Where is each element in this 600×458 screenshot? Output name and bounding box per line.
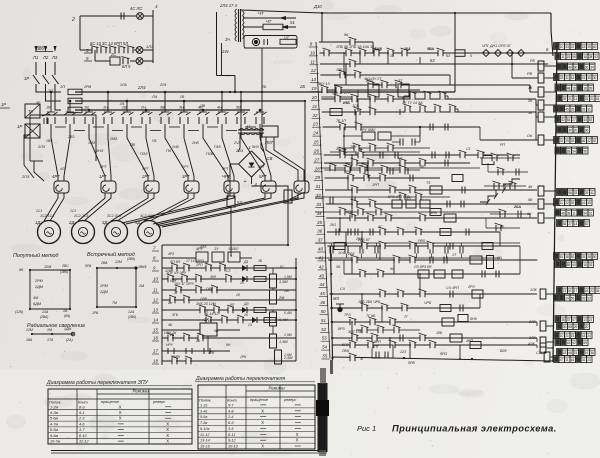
wire box53 down <box>231 207 232 256</box>
grid extra row33 <box>359 166 366 174</box>
svg-text:СВР: СВР <box>200 297 208 301</box>
svg-text:44: 44 <box>583 118 587 122</box>
svg-text:Л2: Л2 <box>42 55 49 60</box>
svg-text:6Л 5: 6Л 5 <box>122 64 131 69</box>
grid row 35 wire <box>325 189 537 191</box>
svg-text:2РТ: 2РТ <box>141 174 150 179</box>
svg-text:1ЛК: 1ЛК <box>530 288 537 292</box>
svg-text:51: 51 <box>321 318 326 323</box>
svg-text:1С1: 1С1 <box>36 209 42 213</box>
svg-text:вращение: вращение <box>101 400 119 404</box>
contact 14 <box>118 47 120 53</box>
subcircuit row 9 <box>162 267 296 269</box>
grid extra row43 <box>481 271 483 278</box>
grid row 33 comp <box>344 166 351 174</box>
svg-text:9К: 9К <box>344 33 349 37</box>
subcircuit row 10 <box>162 278 296 280</box>
contact cross-reference table row y264 <box>555 261 561 268</box>
wire bus A to transformer <box>454 13 456 92</box>
svg-text:41: 41 <box>590 191 594 195</box>
resistor 6С <box>280 39 296 44</box>
svg-text:П6: П6 <box>152 139 157 143</box>
grid row 42 comp <box>351 256 358 264</box>
svg-text:18: 18 <box>582 334 586 338</box>
wire bridge left leg <box>230 164 239 196</box>
node top <box>321 12 323 14</box>
scan noise speckle <box>115 203 132 211</box>
grid row 34 comp <box>347 174 354 182</box>
svg-text:10Б: 10Б <box>436 331 443 335</box>
svg-text:6Н9: 6Н9 <box>470 317 477 321</box>
svg-text:12М: 12М <box>44 265 52 269</box>
svg-text:3В: 3В <box>160 106 165 110</box>
svg-text:2М: 2М <box>283 289 289 293</box>
grid row 55 comp <box>349 354 356 362</box>
tables bottom border <box>51 450 327 452</box>
svg-text:Л4: Л4 <box>151 94 158 99</box>
svg-text:30: 30 <box>563 325 567 329</box>
wire row3 <box>95 60 110 62</box>
svg-text:54: 54 <box>322 345 327 350</box>
svg-text:Зч: Зч <box>225 37 231 42</box>
svg-text:14: 14 <box>153 318 158 323</box>
svg-text:16: 16 <box>571 358 575 362</box>
svg-text:21: 21 <box>590 97 594 101</box>
svg-text:1ЛА: 1ЛА <box>120 83 127 87</box>
svg-text:2Л4: 2Л4 <box>137 85 146 90</box>
svg-text:9-12: 9-12 <box>228 439 237 443</box>
svg-text:1НЗ: 1НЗ <box>96 149 104 153</box>
wire row8 <box>162 257 196 259</box>
svg-text:1П: 1П <box>60 84 65 89</box>
svg-text:30: 30 <box>574 66 578 70</box>
contact 4C <box>120 13 122 20</box>
subcircuit right rail <box>295 258 297 361</box>
svg-text:ЛБК: ЛБК <box>341 349 350 353</box>
svg-text:МЗ: МЗ <box>333 296 339 301</box>
svg-text:51: 51 <box>568 289 572 293</box>
svg-text:23: 23 <box>312 122 318 127</box>
svg-text:10: 10 <box>560 45 564 49</box>
grid row 40 wire <box>327 231 500 233</box>
transformer 3Т primary winding <box>235 9 237 14</box>
wire secondary line1 <box>243 17 296 19</box>
svg-text:59: 59 <box>572 55 576 59</box>
svg-text:36: 36 <box>585 129 589 133</box>
button МЗ <box>336 303 344 305</box>
grid junction dots <box>343 52 345 54</box>
lamp ЛС <box>137 13 144 20</box>
subcircuit row 16 <box>162 337 296 339</box>
grid row 32 comp <box>351 159 358 167</box>
svg-text:ПЗЗ: ПЗЗ <box>140 152 148 156</box>
contact cross-reference table row y56 <box>555 53 561 60</box>
svg-text:39: 39 <box>589 87 593 91</box>
svg-text:31: 31 <box>560 139 564 143</box>
grid row 13 wire <box>335 84 530 86</box>
grid row 41 comp <box>334 243 345 250</box>
wire phase drop C <box>55 90 61 110</box>
svg-text:6РП: 6РП <box>374 340 381 344</box>
svg-text:47: 47 <box>560 358 564 362</box>
svg-text:6ДМ: 6ДМ <box>33 302 42 306</box>
svg-text:33: 33 <box>589 263 593 267</box>
svg-text:5РУ ЧМУ: 5РУ ЧМУ <box>360 128 376 132</box>
scan gutter shadow <box>318 383 328 452</box>
relay coil 4К <box>538 186 544 196</box>
svg-text:4ЭЗ: 4ЭЗ <box>200 245 206 249</box>
grid right-mid contacts 1 <box>491 154 498 162</box>
svg-text:31: 31 <box>565 76 569 80</box>
svg-text:12: 12 <box>153 298 158 303</box>
grid row 42 wire <box>328 259 537 261</box>
radial diagram line <box>32 333 73 335</box>
svg-text:ОК: ОК <box>527 134 533 138</box>
svg-text:В29: В29 <box>500 349 506 353</box>
svg-text:СВ: СВ <box>267 156 273 161</box>
svg-text:1ББ 2БК ЧРБ: 1ББ 2БК ЧРБ <box>358 300 381 304</box>
wire right vertical <box>152 10 154 63</box>
contact cross-reference table row y359 <box>554 356 560 363</box>
rectifier bridge СВ <box>239 151 265 177</box>
svg-text:1НБ: 1НБ <box>172 145 179 149</box>
fuse 1П a <box>68 89 82 95</box>
svg-text:Х: Х <box>261 444 264 449</box>
diagram square 2 <box>97 268 136 307</box>
relay coil 4ЛК <box>540 343 546 353</box>
svg-text:2ДМ: 2ДМ <box>34 285 44 289</box>
svg-text:53: 53 <box>589 118 593 122</box>
svg-text:2К: 2К <box>527 99 533 103</box>
svg-text:43: 43 <box>594 55 598 59</box>
contact cross-reference table row y212.5 <box>555 209 561 216</box>
grid cap extras y232 <box>354 229 356 236</box>
svg-text:40: 40 <box>593 45 597 49</box>
fuse 1П c <box>68 107 82 113</box>
svg-text:Д10: Д10 <box>313 4 322 9</box>
grid extra row36 <box>369 200 376 208</box>
svg-text:1М: 1М <box>47 328 52 332</box>
wire row2 <box>80 49 92 51</box>
svg-text:12М: 12М <box>26 328 33 332</box>
svg-text:49: 49 <box>568 66 572 70</box>
svg-text:26: 26 <box>313 149 319 154</box>
svg-text:10: 10 <box>244 313 248 317</box>
switch 1Р three-phase <box>35 62 37 75</box>
svg-text:ЛЗ 9РЗ ВУ: ЛЗ 9РЗ ВУ <box>413 265 432 269</box>
svg-text:25: 25 <box>582 255 586 259</box>
svg-text:13: 13 <box>574 97 578 101</box>
svg-text:2К1: 2К1 <box>355 237 362 241</box>
contact 6Л <box>122 58 124 64</box>
relay coil 7К <box>487 256 494 269</box>
svg-text:23: 23 <box>587 358 591 362</box>
grid row 47 wire <box>331 321 538 323</box>
wire phase drop B <box>46 90 62 101</box>
svg-text:5Б: 5Б <box>420 165 425 169</box>
grid row 40 comp <box>335 229 337 236</box>
svg-text:57: 57 <box>572 318 576 322</box>
svg-text:2НБ: 2НБ <box>191 141 199 145</box>
svg-text:1: 1 <box>249 145 251 150</box>
wire lamp-circuit left <box>79 16 81 50</box>
svg-text:7Б 1П: 7Б 1П <box>336 119 346 123</box>
relay coil 3К <box>538 112 544 122</box>
svg-text:Принципиальная электросхема.: Принципиальная электросхема. <box>392 424 557 434</box>
svg-text:39: 39 <box>587 76 591 80</box>
svg-text:2РМ: 2РМ <box>99 284 109 288</box>
svg-text:42: 42 <box>587 139 591 143</box>
svg-text:20: 20 <box>585 325 589 329</box>
box 53 <box>227 196 235 207</box>
svg-text:2ЧЗ: 2ЧЗ <box>233 141 241 145</box>
svg-text:2Л4: 2Л4 <box>159 83 166 87</box>
svg-text:53: 53 <box>237 200 242 205</box>
svg-text:31: 31 <box>582 358 586 362</box>
grid row 41 wire <box>327 245 520 247</box>
svg-text:53: 53 <box>587 297 591 301</box>
svg-text:33: 33 <box>316 202 321 207</box>
subcircuit top rail <box>162 244 288 246</box>
svg-text:4К: 4К <box>528 185 533 189</box>
svg-text:9-1: 9-1 <box>79 411 85 415</box>
svg-text:43: 43 <box>319 273 324 278</box>
svg-text:11: 11 <box>561 55 565 59</box>
grid row 34 wire <box>325 177 440 179</box>
svg-text:2БК: 2БК <box>347 252 355 256</box>
grid right-mid contacts 3 <box>493 182 500 190</box>
svg-text:36: 36 <box>561 318 565 322</box>
subcircuit row 13 <box>162 309 296 311</box>
grid row 41b wire <box>315 242 520 244</box>
svg-text:10-7м: 10-7м <box>50 440 61 444</box>
svg-text:22: 22 <box>571 45 575 49</box>
grid row 19 wire <box>321 89 420 91</box>
svg-text:Д3: Д3 <box>243 302 249 306</box>
sq2 dots <box>96 267 98 269</box>
svg-text:НРУ: НРУ <box>166 343 174 347</box>
svg-text:(12К): (12К) <box>15 310 23 314</box>
svg-text:2РЗ: 2РЗ <box>467 285 475 289</box>
svg-text:11-12: 11-12 <box>200 433 210 437</box>
svg-text:ЗУБ 23 12М: ЗУБ 23 12М <box>196 302 216 306</box>
contact cross-reference table row y46 <box>554 43 560 50</box>
svg-text:Конт.: Конт. <box>78 401 89 405</box>
svg-text:29: 29 <box>565 139 569 143</box>
svg-text:24: 24 <box>565 297 569 301</box>
svg-text:22: 22 <box>565 201 569 205</box>
svg-text:28: 28 <box>567 150 571 154</box>
svg-text:19: 19 <box>312 86 317 91</box>
svg-text:28: 28 <box>587 255 591 259</box>
svg-text:4РК: 4РК <box>208 351 215 355</box>
grid row 30 wire <box>320 167 480 169</box>
grid row 19 comp <box>321 86 328 94</box>
svg-text:Х: Х <box>261 408 264 413</box>
wire row42 to rail <box>482 259 537 261</box>
svg-text:1Л: 1Л <box>240 281 245 285</box>
grid row 32 wire <box>324 162 470 164</box>
relay coil 2ЛК <box>540 321 546 331</box>
svg-text:2ПЗ: 2ПЗ <box>21 175 30 179</box>
grid row 37 comp <box>349 214 356 222</box>
svg-text:3ЛК: 3ЛК <box>529 336 536 340</box>
svg-text:И5Б: И5Б <box>343 101 350 105</box>
svg-text:5РО: 5РО <box>440 352 447 356</box>
grid extra row48 <box>419 334 426 342</box>
svg-text:4РЗ: 4РЗ <box>168 252 174 256</box>
wire frame drop <box>34 161 44 181</box>
relay coil 1К <box>538 87 544 97</box>
grid row 26 wire <box>322 111 536 113</box>
contact cross-reference table row y129.5 <box>557 126 563 133</box>
svg-text:23: 23 <box>567 55 571 59</box>
svg-text:29: 29 <box>574 325 578 329</box>
svg-text:54: 54 <box>572 150 576 154</box>
wire <box>143 49 153 51</box>
svg-text:СЧ 4РП: СЧ 4РП <box>446 286 459 290</box>
svg-text:8-10: 8-10 <box>79 434 88 438</box>
svg-text:54: 54 <box>583 212 587 216</box>
svg-text:11: 11 <box>565 358 569 362</box>
svg-text:П1Б: П1Б <box>214 145 221 149</box>
svg-text:1БЛ: 1БЛ <box>232 247 239 251</box>
svg-text:Рис 1: Рис 1 <box>357 424 376 433</box>
svg-text:Х: Х <box>166 433 169 438</box>
wire drop to bridge <box>234 76 236 93</box>
svg-text:16: 16 <box>571 76 575 80</box>
grid row 33 wire <box>324 169 420 171</box>
svg-text:23: 23 <box>203 309 208 313</box>
box 5Р <box>25 124 40 138</box>
svg-text:4КУ 13: 4КУ 13 <box>318 82 329 86</box>
svg-text:2ДМ: 2ДМ <box>99 290 109 294</box>
svg-text:12: 12 <box>311 68 316 73</box>
header wire left drop <box>321 13 323 42</box>
svg-text:5К: 5К <box>528 198 533 202</box>
svg-text:13: 13 <box>153 308 158 313</box>
wire <box>143 15 153 17</box>
svg-text:5НЗ: 5НЗ <box>252 145 259 149</box>
svg-text:48: 48 <box>596 289 600 293</box>
svg-text:20: 20 <box>311 95 317 100</box>
contact cross-reference table row y87.5 <box>555 84 561 91</box>
svg-text:17: 17 <box>153 349 158 354</box>
grid row 27 comp <box>339 123 346 131</box>
svg-text:34: 34 <box>590 66 594 70</box>
svg-text:+: + <box>244 179 247 185</box>
svg-text:9Б: 9Б <box>500 225 505 229</box>
grid row 43 wire <box>344 273 520 275</box>
svg-text:28: 28 <box>589 55 593 59</box>
svg-text:(2ВК): (2ВК) <box>128 315 136 319</box>
grid row 29 wire <box>330 151 420 153</box>
svg-text:15: 15 <box>582 76 586 80</box>
svg-text:33: 33 <box>565 45 569 49</box>
svg-text:ЧТ: ЧТ <box>258 11 264 16</box>
svg-text:53: 53 <box>571 255 575 259</box>
svg-text:1,5М: 1,5М <box>284 333 292 337</box>
svg-text:8-11: 8-11 <box>228 433 235 437</box>
grid row 30 comp <box>329 164 336 172</box>
svg-text:РВ5: РВ5 <box>418 239 426 243</box>
svg-text:13-14: 13-14 <box>200 439 210 443</box>
grid lower-left rail <box>331 246 333 360</box>
svg-text:1Д: 1Д <box>35 220 40 225</box>
svg-text:23: 23 <box>560 76 564 80</box>
grid extra row42 <box>429 257 431 264</box>
svg-text:52: 52 <box>561 118 565 122</box>
svg-text:28: 28 <box>585 191 589 195</box>
svg-text:2: 2 <box>71 17 75 23</box>
svg-text:4С ЛС: 4С ЛС <box>130 6 143 11</box>
svg-text:2МЗ: 2МЗ <box>109 137 118 141</box>
svg-text:4-7м: 4-7м <box>50 422 59 426</box>
grid cluster ЛЗ <box>418 270 429 278</box>
wire 4Т secondary left <box>239 133 241 148</box>
svg-text:15: 15 <box>153 328 158 333</box>
svg-text:1ВЗ: 1ВЗ <box>46 139 53 143</box>
svg-text:4РТ: 4РТ <box>258 165 265 169</box>
svg-text:1П: 1П <box>48 89 53 93</box>
subcircuit row 12 <box>162 299 296 301</box>
subcircuit row 18 <box>162 360 296 362</box>
svg-text:33: 33 <box>582 108 586 112</box>
svg-text:5В: 5В <box>236 106 241 110</box>
svg-text:2РТ: 2РТ <box>99 165 107 169</box>
wire phase drop A <box>36 90 61 92</box>
svg-text:11: 11 <box>560 201 564 205</box>
svg-text:40: 40 <box>318 247 323 252</box>
svg-text:5-7: 5-7 <box>228 403 234 407</box>
svg-text:1СБ: 1СБ <box>352 104 360 108</box>
svg-text:5-6г: 5-6г <box>200 415 208 419</box>
svg-text:59: 59 <box>583 341 587 345</box>
svg-text:1У: 1У <box>214 247 219 251</box>
grid row 10 components <box>345 49 352 57</box>
grid row 9 wire <box>319 41 373 43</box>
svg-text:4-8: 4-8 <box>228 409 234 413</box>
svg-text:17: 17 <box>574 289 578 293</box>
svg-text:50: 50 <box>593 255 597 259</box>
grid row 33b wire <box>315 196 450 198</box>
wire П07 drops <box>266 137 298 181</box>
subcircuit row 11 <box>162 289 296 291</box>
lamp 1ЛЗ <box>136 47 143 54</box>
svg-text:63: 63 <box>430 58 435 63</box>
svg-text:9-10г: 9-10г <box>200 427 210 431</box>
svg-text:18: 18 <box>583 55 587 59</box>
svg-text:45: 45 <box>320 291 325 296</box>
svg-text:Х: Х <box>296 432 299 437</box>
paper light zone bottom <box>0 370 600 458</box>
svg-text:СЧ: СЧ <box>340 287 345 291</box>
contact cross-reference table row y77 <box>554 74 560 81</box>
grid row 33b comp <box>329 197 331 204</box>
svg-text:1РА: 1РА <box>92 311 99 315</box>
grid right vertical link <box>535 99 537 140</box>
svg-text:27: 27 <box>568 222 572 226</box>
svg-text:С10: С10 <box>536 351 543 355</box>
svg-text:8Н: 8Н <box>226 343 231 347</box>
svg-text:27: 27 <box>313 157 319 162</box>
svg-text:6РА: 6РА <box>85 264 92 268</box>
svg-text:Диаграмма работы переключателя: Диаграмма работы переключателя <box>195 376 285 382</box>
grid row 9 drop <box>372 42 374 53</box>
svg-text:21: 21 <box>311 104 317 109</box>
svg-text:32: 32 <box>593 139 597 143</box>
grid extra row148 wire <box>344 147 430 149</box>
